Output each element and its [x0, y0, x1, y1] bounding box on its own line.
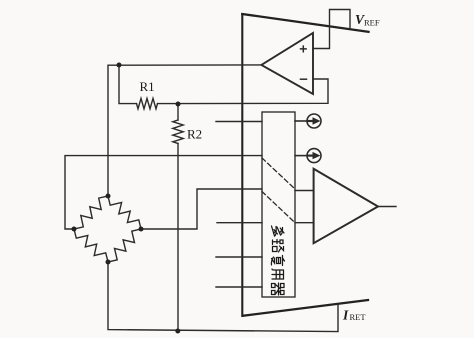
- mux input stub 1: [216, 121, 262, 123]
- resistor R1: [119, 65, 137, 103]
- label mux 路 (rotated glyph): [273, 240, 284, 253]
- current source I1: [295, 114, 321, 128]
- svg-text:REF: REF: [364, 18, 380, 28]
- chip outline top slanted edge: [242, 14, 368, 32]
- PGA amplifier triangle: [314, 169, 378, 243]
- wire bridge right branch to mux input 3: [141, 189, 262, 229]
- wire minus input feedback: [178, 79, 328, 104]
- wire op-amp output to left circuit: [108, 65, 261, 196]
- wire mux out 2 to amp: [295, 222, 314, 224]
- bridge resistor bottom-right: [108, 229, 141, 262]
- wire Vref step to plus input: [313, 10, 350, 49]
- mux input stub 4: [217, 222, 262, 224]
- bridge resistor bottom-left: [74, 229, 108, 262]
- mux input stub 6: [216, 286, 262, 288]
- op-amp minus sign: [301, 78, 307, 80]
- junction dot bridge top node: [106, 194, 111, 199]
- junction dot bridge right node: [139, 227, 144, 232]
- junction dot bridge left node: [72, 227, 77, 232]
- bottom return wire: [108, 262, 338, 332]
- bridge resistor top-left: [74, 196, 108, 229]
- mux dashed switch path 1: [262, 158, 295, 189]
- op-amp plus sign: [301, 46, 307, 52]
- wire bridge left branch to mux input 2: [65, 156, 262, 229]
- mux dashed switch path 2: [262, 192, 295, 223]
- op-amp U1: [261, 33, 313, 94]
- mux input stub 5: [216, 256, 262, 258]
- chip outline left edge: [241, 14, 243, 316]
- bridge resistor top-right: [108, 196, 141, 229]
- label mux 用 (rotated glyph): [272, 269, 284, 279]
- label mux 复 (rotated glyph): [271, 256, 284, 266]
- multiplexer box: [262, 112, 295, 297]
- junction dot bridge bottom node: [106, 260, 111, 265]
- resistor R2: [177, 104, 179, 120]
- current source I2: [295, 149, 321, 163]
- label mux 器 (rotated glyph): [272, 283, 285, 295]
- junction dot at op-amp output / R1 tap: [117, 63, 122, 68]
- svg-text:RET: RET: [350, 312, 367, 322]
- svg-text:R1: R1: [140, 79, 155, 94]
- junction dot R1/R2/feedback: [176, 102, 181, 107]
- junction dot R2 to return wire: [175, 329, 180, 334]
- wire amp output: [378, 206, 396, 208]
- svg-text:I: I: [342, 308, 349, 323]
- wire mux out 1 to amp: [295, 190, 314, 192]
- chip outline bottom slanted edge: [243, 300, 368, 316]
- svg-text:R2: R2: [187, 127, 202, 142]
- label mux 多 (rotated glyph): [272, 226, 285, 236]
